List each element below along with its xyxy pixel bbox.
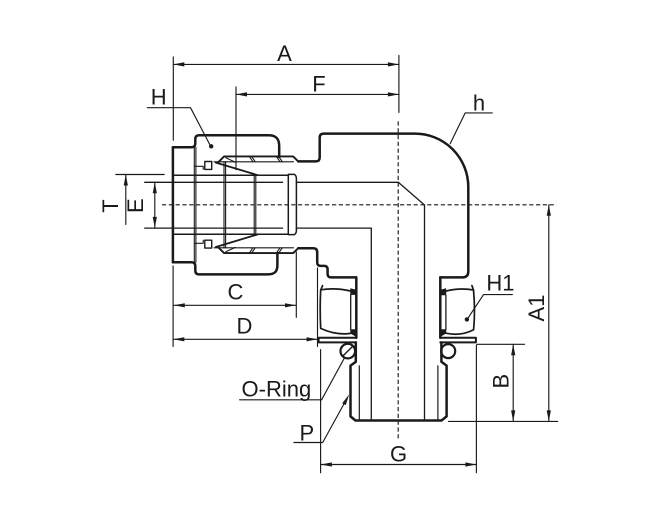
dim T xyxy=(116,174,164,176)
back ferrule bottom xyxy=(205,240,212,248)
nut outline top xyxy=(173,135,279,157)
bore lines E xyxy=(145,182,283,228)
washer band right xyxy=(440,338,476,343)
O-ring right xyxy=(441,344,455,358)
elbow body top outline xyxy=(298,134,468,278)
O-ring left xyxy=(341,344,356,359)
svg-text:P: P xyxy=(299,420,314,445)
dim B xyxy=(512,344,514,421)
hex right flat xyxy=(446,286,474,335)
leader h xyxy=(450,113,492,144)
nut outline left face xyxy=(172,147,175,262)
centerline vertical xyxy=(397,121,399,441)
dim A1 xyxy=(548,205,550,422)
body bore lines xyxy=(296,182,398,228)
bore chamfer corner xyxy=(398,182,424,205)
hex dark corners xyxy=(350,288,446,337)
svg-text:B: B xyxy=(489,374,514,389)
leader H xyxy=(147,108,210,145)
hex strip edges xyxy=(351,295,446,330)
svg-text:h: h xyxy=(473,90,485,115)
thread crest top xyxy=(219,156,299,161)
svg-text:G: G xyxy=(390,441,407,466)
washer band left xyxy=(319,338,357,343)
stud outline xyxy=(351,342,447,420)
svg-text:H1: H1 xyxy=(486,271,514,296)
dim A xyxy=(173,63,399,65)
thread crest bottom xyxy=(219,248,299,253)
dim G xyxy=(321,464,477,466)
centerline horizontal xyxy=(162,204,557,206)
dim D xyxy=(173,338,317,340)
svg-text:A1: A1 xyxy=(524,295,549,322)
ferrule contact pairs xyxy=(224,162,226,248)
leader O-Ring xyxy=(240,358,345,400)
hex left flat xyxy=(320,286,350,334)
dim C xyxy=(174,304,296,306)
thread root bottom xyxy=(214,247,294,249)
front ferrule bottom taper xyxy=(216,234,258,247)
svg-text:A: A xyxy=(277,41,292,66)
hex corner edge left xyxy=(355,277,358,337)
tube OD lines xyxy=(173,175,288,234)
elbow body bottom-left steps xyxy=(298,248,356,277)
svg-text:F: F xyxy=(312,71,325,96)
stud thread root lines xyxy=(359,366,438,421)
svg-text:D: D xyxy=(237,313,253,338)
bore vertical right xyxy=(424,205,426,420)
thread root top xyxy=(214,161,294,163)
svg-text:E: E xyxy=(123,198,148,213)
svg-text:T: T xyxy=(98,199,123,212)
svg-text:H: H xyxy=(151,85,167,110)
svg-text:O-Ring: O-Ring xyxy=(242,376,312,401)
svg-text:C: C xyxy=(228,280,244,305)
bore vertical left xyxy=(370,228,372,420)
back ferrule top xyxy=(205,162,212,170)
tube end face xyxy=(287,175,289,234)
dim F xyxy=(236,93,399,95)
nut outline bottom xyxy=(173,253,278,275)
dim E xyxy=(154,182,156,228)
hex corner edge right xyxy=(439,277,442,337)
body land barrel xyxy=(288,174,296,234)
leader H1 xyxy=(468,295,512,319)
nut inner step lines xyxy=(194,147,196,262)
front ferrule top taper xyxy=(216,163,258,176)
leader P xyxy=(294,398,348,443)
thread hash top xyxy=(249,156,282,161)
thread hash bottom xyxy=(249,248,282,253)
